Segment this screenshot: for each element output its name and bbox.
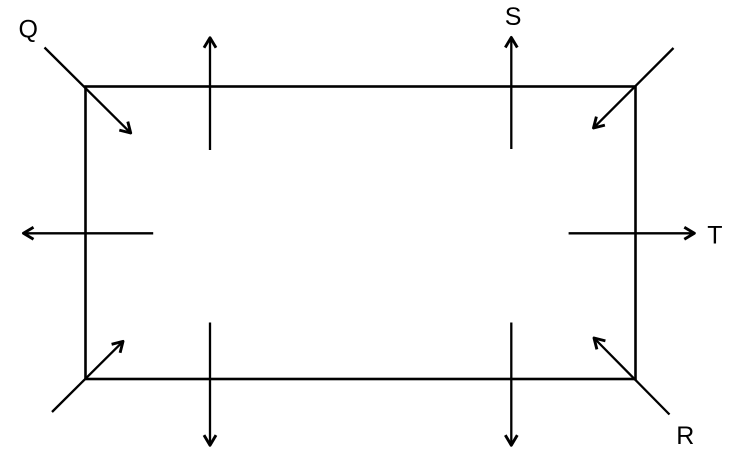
arrow left (west, mid left edge) [23, 227, 153, 239]
svg-text:Q: Q [19, 15, 38, 43]
arrow bottom-left diagonal [52, 341, 123, 412]
svg-text:R: R [676, 422, 694, 450]
arrow bottom-right diagonal R [594, 338, 670, 415]
svg-text:T: T [707, 221, 722, 249]
svg-text:S: S [505, 3, 522, 31]
arrow Q top-left diagonal [45, 48, 131, 134]
rectangle body [86, 87, 636, 380]
arrow down (bottom-left of bottom edge) [204, 323, 216, 446]
arrow right T (east, mid right edge) [569, 227, 695, 239]
arrow up (top-left of top edge) [204, 38, 216, 150]
arrow top-right diagonal [594, 48, 674, 128]
arrow down (bottom-right of bottom edge) [505, 323, 517, 446]
arrow up S (top-right of top edge) [505, 37, 517, 149]
